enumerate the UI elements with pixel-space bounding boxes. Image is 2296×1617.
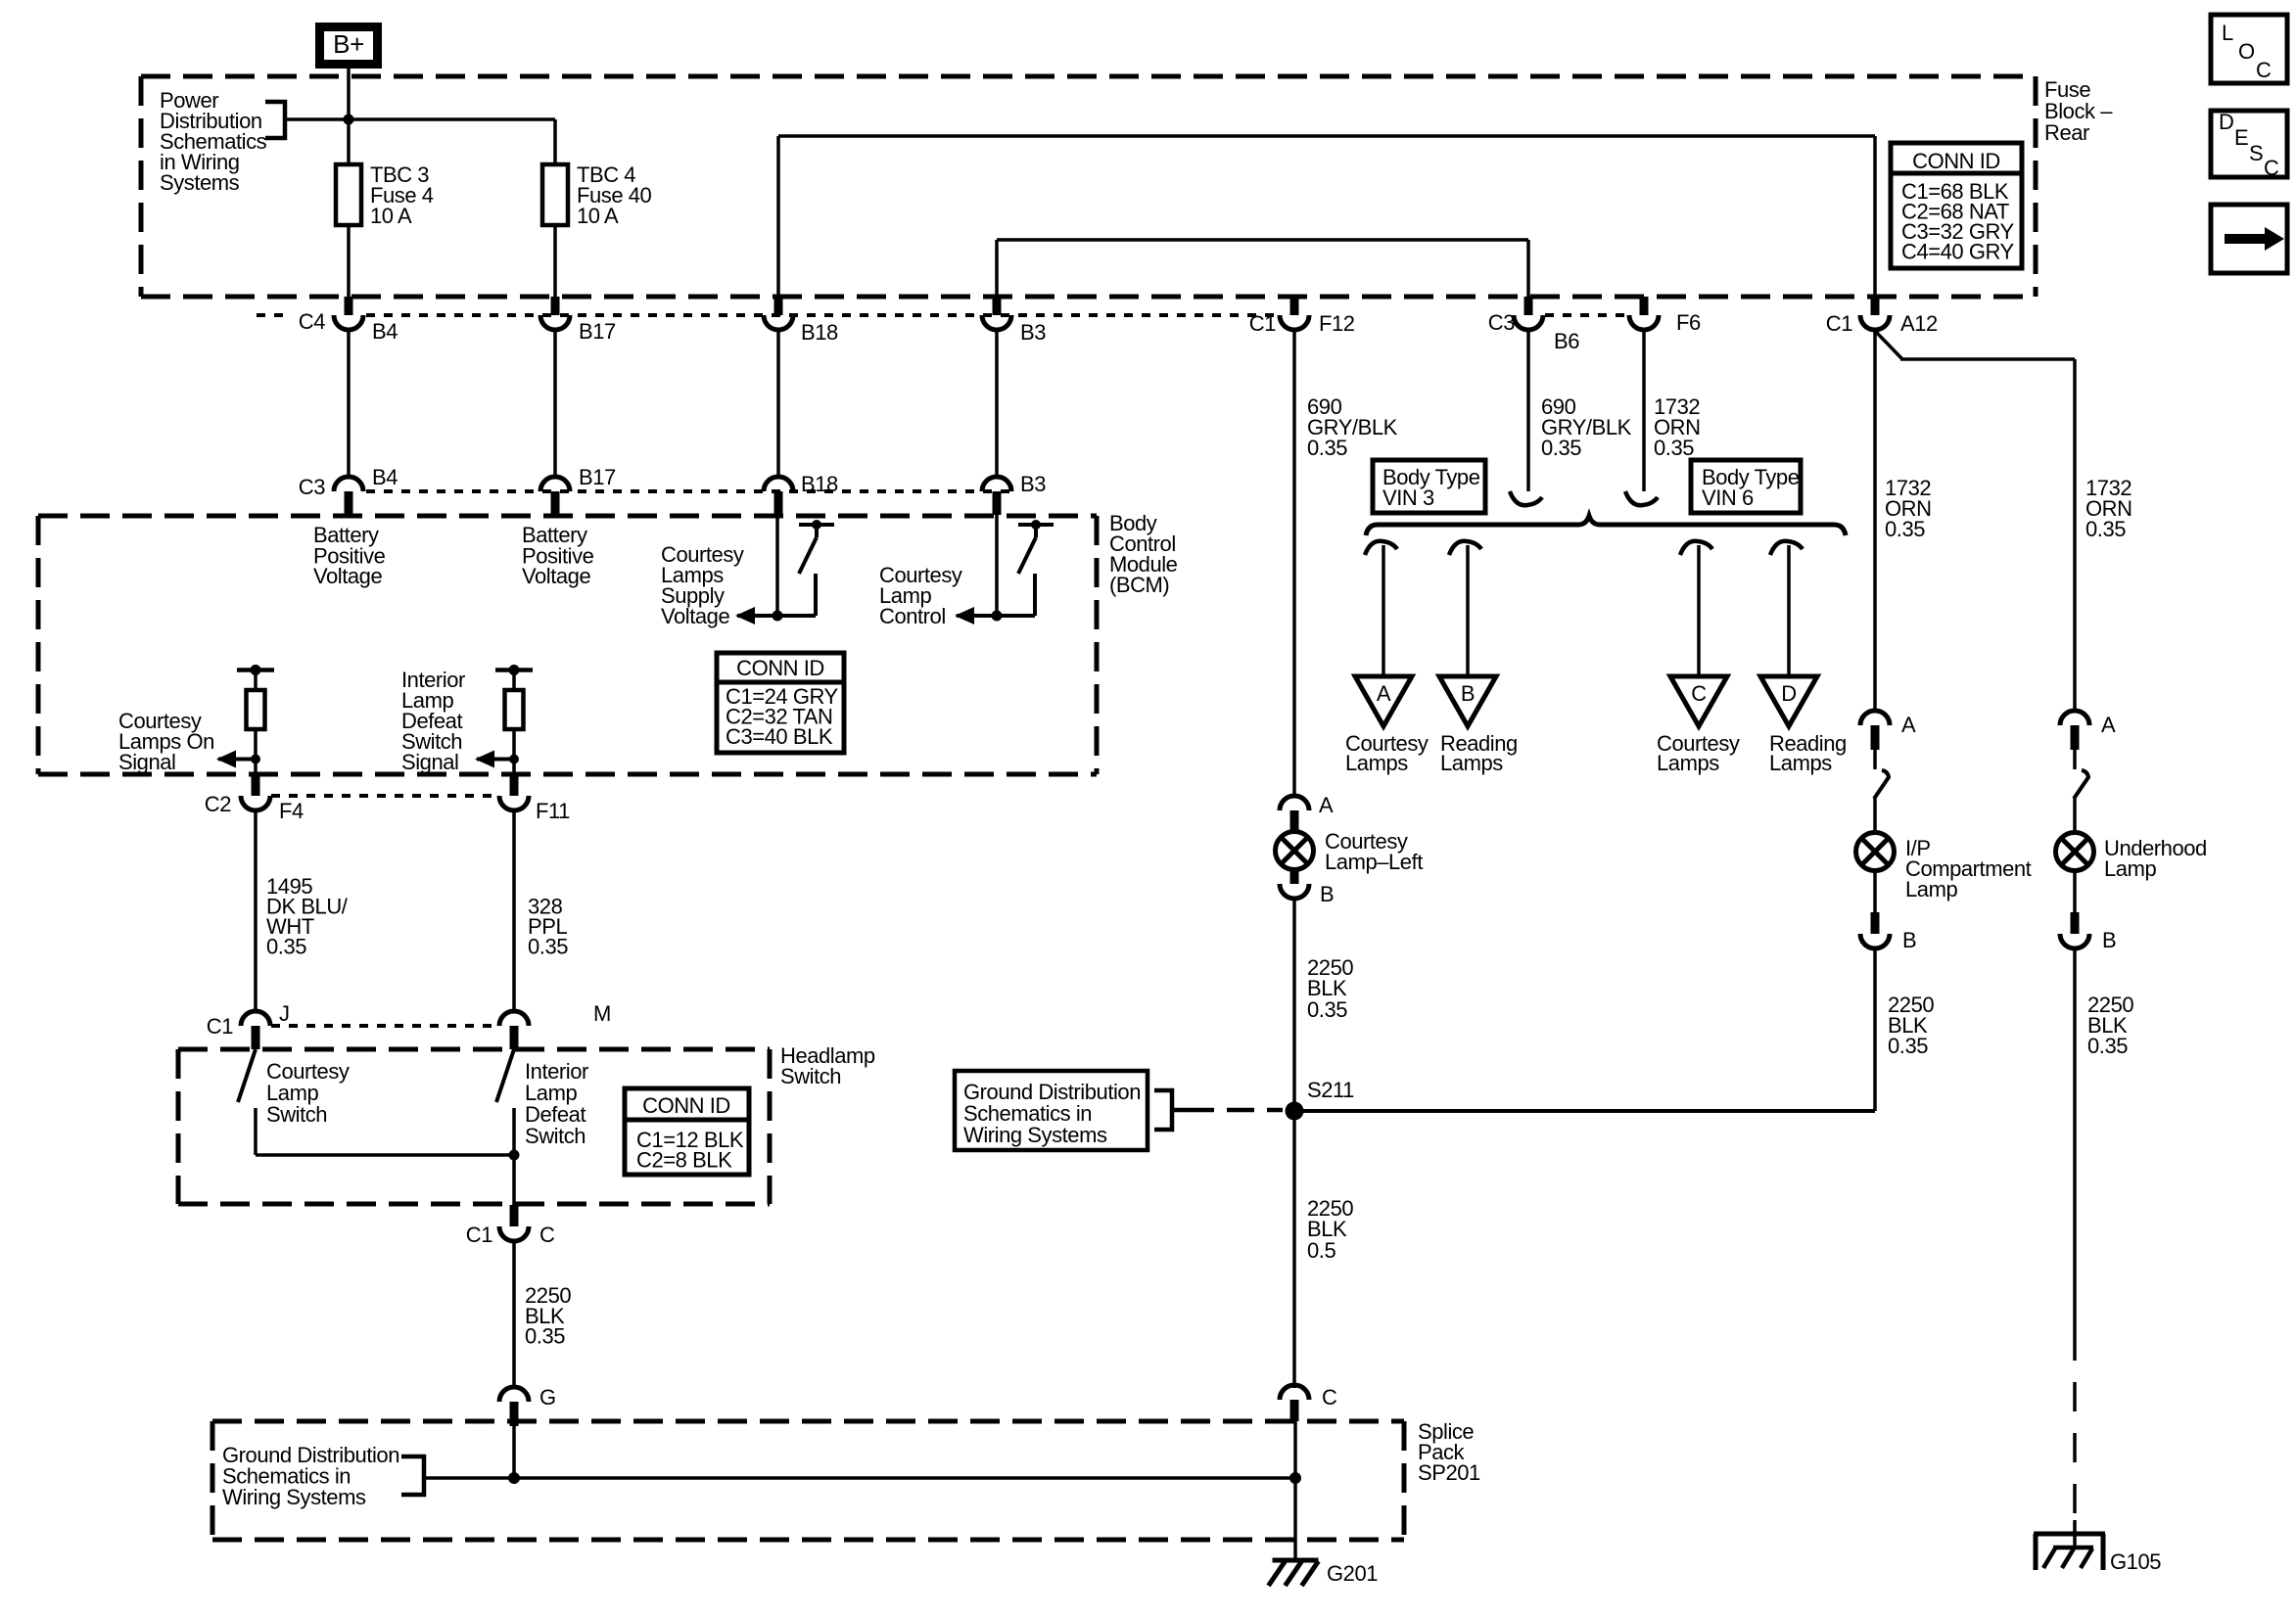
svg-text:S: S	[2249, 141, 2263, 165]
svg-text:Voltage: Voltage	[661, 604, 729, 628]
svg-text:G105: G105	[2110, 1549, 2161, 1574]
svg-text:B18: B18	[801, 320, 838, 345]
svg-text:Lamp: Lamp	[2104, 856, 2156, 881]
svg-text:S211: S211	[1307, 1078, 1354, 1102]
svg-text:CONN ID: CONN ID	[1912, 149, 2000, 173]
svg-text:B3: B3	[1020, 320, 1046, 345]
svg-text:C4: C4	[299, 309, 325, 334]
svg-text:Lamps: Lamps	[1440, 751, 1503, 775]
svg-text:C: C	[539, 1223, 555, 1247]
svg-text:0.35: 0.35	[1888, 1034, 1928, 1058]
svg-text:0.35: 0.35	[1307, 997, 1347, 1022]
svg-text:C1: C1	[207, 1014, 233, 1039]
svg-text:C: C	[1691, 681, 1707, 706]
svg-text:B4: B4	[372, 465, 398, 489]
svg-text:CONN ID: CONN ID	[736, 656, 824, 680]
svg-text:J: J	[279, 1001, 290, 1026]
svg-text:A: A	[1901, 713, 1916, 737]
svg-text:C2: C2	[205, 792, 231, 816]
svg-text:G: G	[539, 1385, 556, 1409]
svg-text:Signal: Signal	[401, 750, 458, 774]
svg-text:L: L	[2222, 21, 2233, 45]
svg-text:(BCM): (BCM)	[1109, 573, 1169, 597]
svg-text:SP201: SP201	[1418, 1460, 1480, 1485]
svg-text:C1: C1	[1249, 311, 1276, 336]
svg-text:C: C	[2264, 156, 2279, 180]
svg-text:Rear: Rear	[2044, 120, 2089, 145]
svg-text:B3: B3	[1020, 472, 1046, 496]
svg-text:E: E	[2234, 125, 2248, 150]
svg-text:Lamp–Left: Lamp–Left	[1325, 850, 1423, 874]
svg-text:B: B	[1320, 882, 1334, 906]
svg-text:B6: B6	[1554, 329, 1579, 353]
svg-text:Lamps: Lamps	[1769, 751, 1832, 775]
svg-text:B: B	[1902, 928, 1916, 952]
svg-text:A: A	[2101, 713, 2116, 737]
svg-text:A: A	[1319, 793, 1334, 817]
svg-text:0.35: 0.35	[1885, 517, 1925, 541]
svg-text:Signal: Signal	[118, 750, 175, 774]
svg-text:Lamp: Lamp	[1905, 877, 1957, 901]
svg-text:VIN 3: VIN 3	[1382, 485, 1434, 510]
svg-text:Lamps: Lamps	[1657, 751, 1719, 775]
svg-text:Control: Control	[879, 604, 946, 628]
svg-text:M: M	[593, 1001, 611, 1026]
svg-text:Lamps: Lamps	[1345, 751, 1408, 775]
svg-text:G201: G201	[1327, 1561, 1378, 1586]
svg-text:Switch: Switch	[780, 1064, 841, 1088]
svg-text:B17: B17	[579, 465, 616, 489]
svg-text:C1: C1	[466, 1223, 492, 1247]
svg-text:D: D	[2219, 110, 2233, 134]
svg-text:10 A: 10 A	[370, 204, 412, 228]
svg-text:B17: B17	[579, 319, 616, 344]
svg-text:VIN 6: VIN 6	[1702, 485, 1754, 510]
svg-text:CONN ID: CONN ID	[642, 1093, 730, 1118]
svg-text:0.35: 0.35	[266, 935, 306, 959]
svg-text:0.35: 0.35	[1307, 436, 1347, 460]
svg-text:F4: F4	[279, 799, 304, 823]
svg-text:0.35: 0.35	[2085, 517, 2126, 541]
svg-text:C3=40 BLK: C3=40 BLK	[726, 724, 833, 749]
svg-text:F12: F12	[1319, 311, 1355, 336]
svg-text:B+: B+	[333, 29, 364, 59]
svg-text:B: B	[1461, 681, 1475, 706]
svg-text:0.35: 0.35	[2087, 1034, 2128, 1058]
svg-text:A: A	[1377, 681, 1391, 706]
svg-text:0.35: 0.35	[1541, 436, 1581, 460]
svg-text:C: C	[1322, 1385, 1337, 1409]
svg-text:A12: A12	[1900, 311, 1938, 336]
svg-text:B: B	[2102, 928, 2116, 952]
svg-text:D: D	[1781, 681, 1796, 706]
svg-text:Voltage: Voltage	[522, 564, 590, 588]
svg-text:B18: B18	[801, 472, 838, 496]
svg-text:0.35: 0.35	[525, 1324, 565, 1349]
svg-text:0.35: 0.35	[1654, 436, 1694, 460]
svg-text:Systems: Systems	[160, 170, 240, 195]
svg-text:Voltage: Voltage	[313, 564, 382, 588]
svg-text:C3: C3	[299, 475, 325, 499]
svg-text:C: C	[2256, 58, 2272, 82]
svg-text:Switch: Switch	[266, 1102, 327, 1127]
svg-text:10 A: 10 A	[577, 204, 619, 228]
svg-text:F6: F6	[1676, 310, 1701, 335]
svg-text:F11: F11	[536, 799, 570, 823]
svg-text:O: O	[2238, 39, 2255, 64]
svg-text:C4=40 GRY: C4=40 GRY	[1901, 240, 2015, 264]
svg-text:Switch: Switch	[525, 1124, 586, 1148]
svg-text:Wiring Systems: Wiring Systems	[963, 1123, 1107, 1147]
svg-text:C3: C3	[1488, 310, 1515, 335]
svg-text:0.35: 0.35	[528, 935, 568, 959]
svg-text:C2=8 BLK: C2=8 BLK	[636, 1148, 732, 1173]
svg-text:Wiring Systems: Wiring Systems	[222, 1485, 366, 1509]
svg-text:C1: C1	[1826, 311, 1852, 336]
svg-text:B4: B4	[372, 319, 398, 344]
svg-text:0.5: 0.5	[1307, 1238, 1335, 1263]
